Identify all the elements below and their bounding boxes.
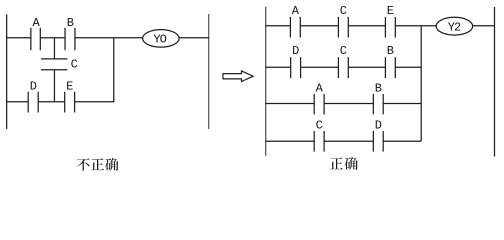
rung 3 wire: B to junction vertical xyxy=(383,103,421,105)
rung 4 wire: D to junction vertical xyxy=(383,140,421,142)
caption 不正确 (incorrect) under left diagram xyxy=(77,158,119,171)
rung 1 wire: coil Y2 to right rail xyxy=(473,25,495,27)
wire: contact D to contact E xyxy=(38,101,64,103)
wire: contact E to right branch corner xyxy=(75,101,115,103)
rung 3 wire: rail to contact A xyxy=(266,103,315,105)
svg-text:C: C xyxy=(340,44,347,58)
svg-text:A: A xyxy=(32,16,40,30)
contact E xyxy=(64,92,66,113)
wire: contact C down to bottom rung xyxy=(53,70,55,102)
coil Y0 xyxy=(143,30,180,48)
svg-text:Y2: Y2 xyxy=(448,20,461,34)
node: branch from A-B junction down to bridge contact C xyxy=(53,38,55,59)
contact C (rung 1) xyxy=(337,17,339,38)
right power rail xyxy=(494,7,496,157)
contact E (rung 1) xyxy=(384,17,386,38)
contact A (rung 3) xyxy=(313,94,315,115)
contact B (rung 2) xyxy=(384,57,386,78)
rung 4 wire: rail to contact C xyxy=(266,140,315,142)
wire: coil Y0 to right rail xyxy=(179,37,209,39)
coil Y2 xyxy=(436,17,473,35)
rung 2 wire: B to junction vertical xyxy=(395,66,421,68)
right power rail xyxy=(208,14,210,129)
svg-text:D: D xyxy=(292,44,299,58)
svg-text:B: B xyxy=(375,81,382,95)
svg-text:A: A xyxy=(292,4,300,18)
svg-text:D: D xyxy=(375,119,382,133)
rung 2 wire: C to B xyxy=(348,66,385,68)
contact B xyxy=(64,28,66,50)
contact C (rung 2) xyxy=(337,57,339,78)
contact A xyxy=(30,28,32,50)
wire: bottom rung, left rail to contact D xyxy=(6,101,28,103)
wire: right branch vertical up to top rung xyxy=(113,38,115,102)
caption 正确 (correct) under right diagram xyxy=(330,157,358,170)
wire: top rung, left rail to contact A xyxy=(6,37,31,39)
rung 1 wire: C to E xyxy=(348,25,385,27)
contact B (rung 3) xyxy=(372,94,374,115)
svg-text:A: A xyxy=(316,81,324,95)
svg-text:C: C xyxy=(316,119,323,133)
contact D xyxy=(27,92,29,113)
contact C (vertical bridge element) xyxy=(41,58,67,60)
svg-text:YO: YO xyxy=(153,33,166,47)
rung 1 wire: A to C xyxy=(300,25,338,27)
svg-text:C: C xyxy=(71,57,78,71)
svg-text:D: D xyxy=(30,80,37,94)
contact D (rung 2) xyxy=(290,57,292,78)
rung 3 wire: A to B xyxy=(324,103,373,105)
left power rail xyxy=(265,7,267,156)
rung 2 wire: D to C xyxy=(301,66,339,68)
rung 1 wire: rail to contact A xyxy=(266,25,291,27)
contact C (rung 4) xyxy=(313,131,315,152)
wire: contact B to coil Y0 xyxy=(75,37,143,39)
svg-text:E: E xyxy=(387,4,394,18)
svg-text:B: B xyxy=(67,16,74,30)
rung 4 wire: C to D xyxy=(324,140,373,142)
contact D (rung 4) xyxy=(372,131,374,152)
junction vertical joining rungs 1-4 xyxy=(420,26,422,142)
svg-text:C: C xyxy=(340,4,347,18)
rung 1 wire: E to coil Y2 xyxy=(395,25,436,27)
left power rail xyxy=(6,14,8,129)
wire: contact A to contact B xyxy=(40,37,65,39)
contact A (rung 1) xyxy=(289,17,291,38)
block arrow pointing right xyxy=(223,71,253,82)
rung 2 wire: rail to contact D xyxy=(266,66,291,68)
svg-text:B: B xyxy=(387,44,394,58)
svg-text:E: E xyxy=(66,80,73,94)
